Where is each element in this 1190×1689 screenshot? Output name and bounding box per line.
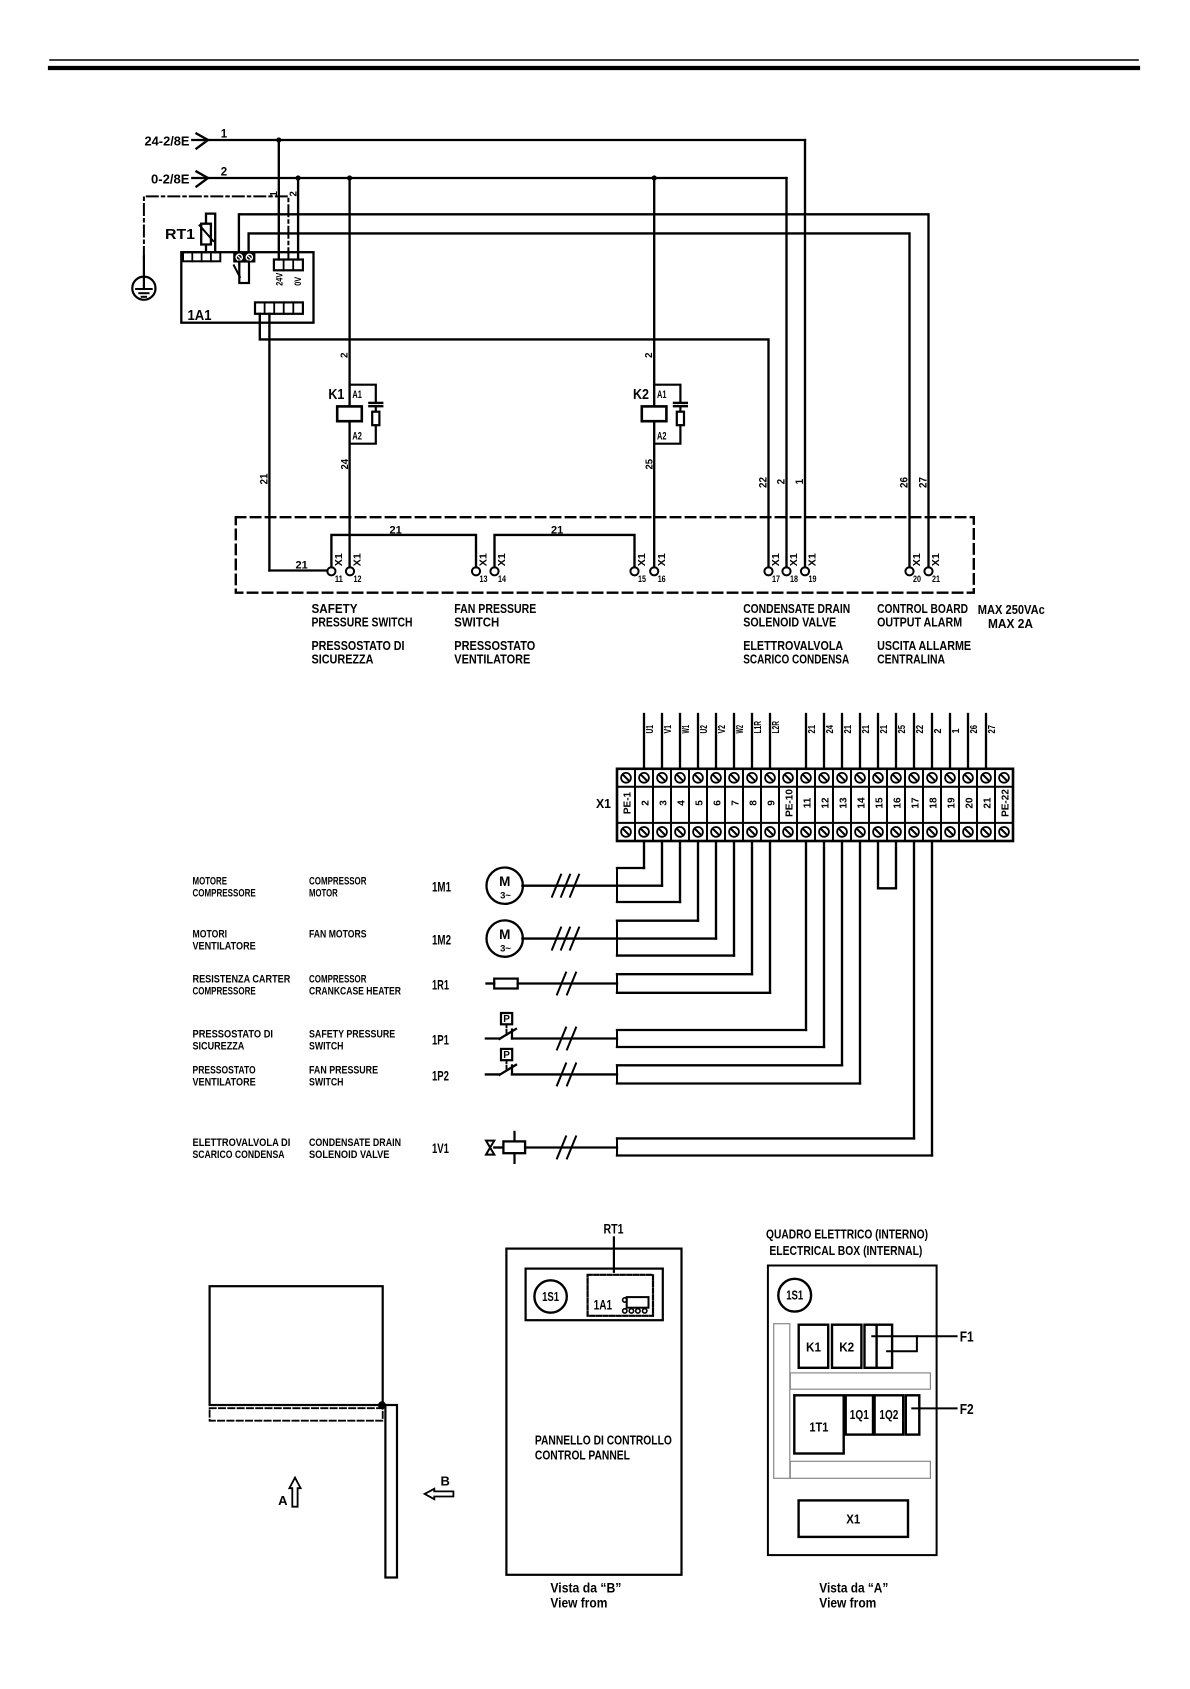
svg-text:2: 2 (643, 352, 655, 358)
svg-text:X1: X1 (333, 553, 345, 566)
svg-text:MOTORE: MOTORE (193, 876, 228, 888)
svg-text:PE-10: PE-10 (785, 789, 796, 817)
svg-text:MOTORI: MOTORI (193, 929, 228, 941)
svg-text:VENTILATORE: VENTILATORE (454, 652, 530, 667)
svg-text:X1: X1 (911, 553, 923, 566)
svg-text:16: 16 (893, 797, 904, 809)
svg-text:COMPRESSOR: COMPRESSOR (309, 974, 367, 986)
svg-text:U1: U1 (645, 725, 656, 734)
svg-text:11: 11 (335, 574, 344, 585)
svg-text:1T1: 1T1 (809, 1420, 828, 1435)
svg-text:X1: X1 (770, 553, 782, 566)
svg-text:2: 2 (221, 167, 227, 179)
svg-text:14: 14 (498, 574, 507, 585)
svg-text:X1: X1 (496, 553, 508, 566)
svg-text:21: 21 (932, 574, 941, 585)
svg-text:1A1: 1A1 (594, 1298, 613, 1313)
svg-text:B: B (441, 1474, 450, 1489)
svg-text:PE-1: PE-1 (623, 791, 634, 814)
svg-text:11: 11 (803, 797, 814, 808)
svg-text:26: 26 (969, 725, 980, 734)
svg-text:M: M (499, 927, 510, 942)
svg-text:FAN PRESSURE: FAN PRESSURE (309, 1064, 378, 1076)
svg-text:X1: X1 (478, 553, 490, 566)
svg-text:X1: X1 (788, 553, 800, 566)
svg-text:ELETTROVALVOLA DI: ELETTROVALVOLA DI (193, 1137, 291, 1149)
svg-text:CONDENSATE DRAIN: CONDENSATE DRAIN (309, 1137, 401, 1149)
svg-text:PRESSURE SWITCH: PRESSURE SWITCH (312, 615, 413, 630)
svg-text:COMPRESSORE: COMPRESSORE (193, 986, 257, 998)
svg-text:PE-22: PE-22 (1001, 789, 1012, 817)
svg-text:RT1: RT1 (165, 226, 195, 243)
svg-text:1A1: 1A1 (188, 307, 212, 324)
svg-text:9: 9 (767, 800, 778, 806)
svg-text:1S1: 1S1 (786, 1289, 803, 1303)
svg-text:SCARICO CONDENSA: SCARICO CONDENSA (743, 652, 849, 667)
svg-text:A2: A2 (352, 431, 362, 443)
svg-text:3: 3 (659, 800, 670, 806)
svg-text:19: 19 (947, 797, 958, 809)
svg-text:A1: A1 (352, 389, 362, 401)
svg-text:ELECTRICAL BOX (INTERNAL): ELECTRICAL BOX (INTERNAL) (769, 1243, 922, 1258)
svg-text:MOTOR: MOTOR (309, 888, 338, 900)
svg-text:20: 20 (913, 574, 921, 585)
svg-text:SWITCH: SWITCH (454, 615, 499, 630)
svg-text:8: 8 (749, 800, 760, 806)
svg-text:A: A (278, 1493, 288, 1508)
svg-text:24V: 24V (274, 273, 284, 286)
svg-text:24: 24 (339, 459, 351, 470)
svg-text:X1: X1 (846, 1512, 860, 1527)
svg-text:21: 21 (807, 725, 818, 734)
svg-text:SICUREZZA: SICUREZZA (193, 1041, 245, 1053)
svg-text:Vista da “A”: Vista da “A” (819, 1581, 888, 1596)
svg-text:21: 21 (296, 559, 308, 571)
svg-text:1: 1 (951, 728, 962, 733)
svg-text:16: 16 (658, 574, 666, 585)
svg-text:X1: X1 (636, 553, 648, 566)
svg-text:A2: A2 (657, 431, 667, 443)
svg-text:21: 21 (551, 524, 563, 536)
svg-text:SCARICO CONDENSA: SCARICO CONDENSA (193, 1149, 285, 1161)
svg-text:Vista da “B”: Vista da “B” (550, 1581, 621, 1596)
svg-text:21: 21 (861, 725, 872, 734)
svg-text:2: 2 (776, 479, 788, 485)
svg-text:27: 27 (918, 477, 930, 488)
svg-text:2: 2 (933, 728, 944, 733)
svg-text:1: 1 (221, 129, 228, 141)
svg-text:15: 15 (875, 797, 886, 809)
svg-text:CRANKCASE HEATER: CRANKCASE HEATER (309, 986, 401, 998)
svg-text:SICUREZZA: SICUREZZA (312, 652, 375, 667)
svg-text:QUADRO ELETTRICO (INTERNO): QUADRO ELETTRICO (INTERNO) (766, 1227, 928, 1242)
svg-text:22: 22 (758, 477, 770, 488)
svg-text:1Q2: 1Q2 (879, 1407, 898, 1422)
svg-text:X1: X1 (807, 553, 819, 566)
svg-text:RT1: RT1 (604, 1222, 624, 1237)
svg-text:1P2: 1P2 (432, 1067, 449, 1083)
svg-text:M: M (499, 874, 510, 889)
svg-text:4: 4 (677, 800, 688, 806)
svg-text:View from: View from (550, 1596, 607, 1611)
svg-text:14: 14 (857, 797, 868, 809)
svg-text:20: 20 (965, 797, 976, 809)
svg-text:V1: V1 (663, 725, 674, 734)
svg-text:17: 17 (911, 797, 922, 809)
svg-text:6: 6 (713, 800, 724, 806)
svg-text:24-2/8E: 24-2/8E (145, 135, 190, 149)
svg-text:SWITCH: SWITCH (309, 1041, 344, 1053)
svg-text:1M1: 1M1 (432, 879, 451, 895)
svg-text:L2R: L2R (771, 720, 782, 733)
svg-text:24: 24 (825, 725, 836, 734)
svg-text:21: 21 (843, 725, 854, 734)
svg-text:MAX 250VAc: MAX 250VAc (978, 602, 1045, 617)
svg-text:0-2/8E: 0-2/8E (151, 173, 190, 187)
svg-text:7: 7 (731, 800, 742, 806)
svg-text:PRESSOSTATO DI: PRESSOSTATO DI (193, 1029, 274, 1041)
svg-text:V2: V2 (717, 725, 728, 734)
svg-text:SOLENOID VALVE: SOLENOID VALVE (743, 615, 836, 630)
svg-text:X1: X1 (352, 553, 364, 566)
svg-text:SAFETY PRESSURE: SAFETY PRESSURE (309, 1029, 396, 1041)
svg-text:PRESSOSTATO: PRESSOSTATO (193, 1064, 256, 1076)
svg-text:2: 2 (288, 191, 300, 197)
svg-text:18: 18 (790, 574, 798, 585)
svg-text:1M2: 1M2 (432, 932, 451, 948)
svg-text:1P1: 1P1 (432, 1032, 449, 1048)
svg-text:13: 13 (480, 574, 488, 585)
svg-text:21: 21 (879, 725, 890, 734)
svg-text:1S1: 1S1 (542, 1290, 559, 1304)
svg-text:OUTPUT ALARM: OUTPUT ALARM (877, 615, 962, 630)
svg-text:VENTILATORE: VENTILATORE (193, 1076, 257, 1088)
svg-text:FAN MOTORS: FAN MOTORS (309, 929, 367, 941)
svg-text:12: 12 (354, 574, 362, 585)
svg-text:21: 21 (390, 524, 402, 536)
svg-text:2: 2 (641, 800, 652, 806)
svg-text:CONTROL PANNEL: CONTROL PANNEL (535, 1447, 630, 1462)
svg-text:3~: 3~ (500, 891, 511, 902)
svg-text:19: 19 (809, 574, 817, 585)
svg-text:X1: X1 (656, 553, 668, 566)
svg-text:COMPRESSORE: COMPRESSORE (193, 888, 257, 900)
svg-text:K1: K1 (328, 386, 344, 403)
svg-text:26: 26 (899, 477, 911, 488)
svg-text:15: 15 (638, 574, 647, 585)
svg-text:L1R: L1R (753, 720, 764, 733)
svg-text:12: 12 (821, 797, 832, 809)
svg-text:25: 25 (644, 459, 656, 470)
svg-text:1: 1 (794, 479, 806, 485)
svg-text:W1: W1 (681, 725, 692, 734)
svg-text:2: 2 (339, 352, 351, 358)
svg-text:25: 25 (897, 725, 908, 734)
svg-text:K2: K2 (633, 386, 649, 403)
svg-text:A1: A1 (657, 389, 667, 401)
svg-text:K2: K2 (839, 1340, 854, 1355)
svg-text:F1: F1 (960, 1330, 974, 1346)
svg-text:W2: W2 (735, 725, 746, 734)
svg-text:VENTILATORE: VENTILATORE (193, 941, 257, 953)
svg-text:1R1: 1R1 (432, 977, 449, 993)
svg-text:F2: F2 (960, 1402, 974, 1418)
svg-text:13: 13 (839, 797, 850, 809)
svg-text:3~: 3~ (500, 944, 511, 955)
svg-text:COMPRESSOR: COMPRESSOR (309, 876, 367, 888)
svg-text:0V: 0V (293, 277, 303, 286)
svg-text:PANNELLO DI CONTROLLO: PANNELLO DI CONTROLLO (535, 1432, 672, 1447)
svg-text:MAX 2A: MAX 2A (988, 616, 1034, 631)
svg-text:5: 5 (695, 800, 706, 806)
svg-text:18: 18 (929, 797, 940, 809)
svg-text:X1: X1 (930, 553, 942, 566)
svg-text:RESISTENZA CARTER: RESISTENZA CARTER (193, 974, 291, 986)
svg-text:CENTRALINA: CENTRALINA (877, 652, 945, 667)
svg-text:22: 22 (915, 725, 926, 734)
svg-text:View from: View from (819, 1596, 876, 1611)
svg-text:1Q1: 1Q1 (850, 1407, 869, 1422)
svg-text:21: 21 (259, 474, 271, 485)
svg-text:U2: U2 (699, 725, 710, 734)
svg-text:1V1: 1V1 (432, 1140, 449, 1156)
svg-text:21: 21 (983, 797, 994, 809)
svg-text:SOLENOID VALVE: SOLENOID VALVE (309, 1149, 390, 1161)
svg-text:X1: X1 (596, 796, 611, 811)
svg-text:SWITCH: SWITCH (309, 1076, 344, 1088)
svg-text:K1: K1 (806, 1340, 821, 1355)
svg-text:27: 27 (987, 725, 998, 734)
svg-text:17: 17 (772, 574, 780, 585)
